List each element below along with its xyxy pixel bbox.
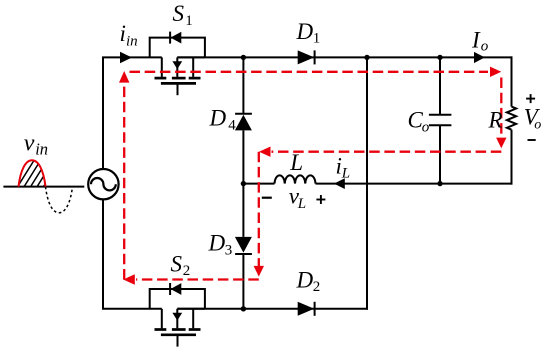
svg-text:D: D — [208, 230, 226, 255]
svg-text:in: in — [35, 139, 48, 158]
svg-text:S: S — [171, 252, 183, 277]
svg-text:4: 4 — [228, 118, 236, 134]
svg-text:L: L — [297, 196, 306, 212]
svg-text:2: 2 — [313, 279, 321, 295]
svg-text:2: 2 — [183, 263, 191, 279]
svg-text:1: 1 — [313, 31, 321, 47]
svg-text:I: I — [471, 27, 481, 52]
svg-text:in: in — [126, 34, 138, 50]
svg-text:S: S — [173, 1, 185, 26]
svg-text:o: o — [422, 120, 430, 136]
svg-text:3: 3 — [225, 242, 233, 258]
svg-text:D: D — [209, 105, 227, 130]
svg-text:R: R — [488, 108, 503, 133]
svg-text:i: i — [120, 21, 126, 46]
svg-text:o: o — [481, 38, 489, 54]
svg-text:1: 1 — [185, 13, 193, 29]
svg-text:L: L — [289, 150, 303, 175]
svg-text:v: v — [24, 130, 35, 156]
svg-text:o: o — [534, 118, 541, 133]
svg-text:D: D — [296, 19, 314, 44]
svg-text:D: D — [296, 268, 314, 293]
svg-text:L: L — [341, 165, 350, 181]
